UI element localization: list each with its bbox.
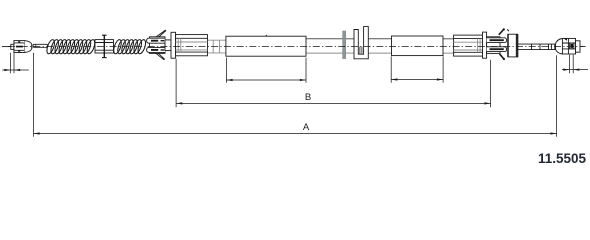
arrows conduit right dim (391, 78, 397, 80)
conduit tube left of sleeve (gray) (208, 40, 226, 53)
inner cable left lead (2, 46, 11, 48)
right socket finger bottom (487, 47, 507, 52)
conduit tube sleeve-to-plate (gray) (306, 38, 343, 40)
right barrel pin (dark) (570, 43, 574, 49)
dim left cap line (2, 69, 29, 71)
arrows B dim (176, 102, 182, 104)
spring sleeve (95, 40, 114, 53)
thick bars in fingers (151, 41, 158, 50)
bulkhead plate (gray) (343, 31, 346, 59)
left stem (165, 40, 171, 51)
left flange disc (171, 32, 176, 58)
conduit sleeve right (392, 36, 444, 56)
right cap (576, 41, 581, 52)
spring left section (45, 39, 96, 55)
arrows conduit left dim (226, 79, 232, 81)
conduit tube right-sleeve to cylinder (443, 38, 454, 40)
left socket finger top (147, 38, 165, 43)
right socket finger top (487, 38, 507, 43)
retainer prong bottom-right (500, 54, 505, 60)
conduit tube plate-to-bracket (346, 38, 354, 40)
right nose dome (555, 39, 562, 55)
retainer prong bottom-left (156, 53, 164, 59)
dim B extension lines (176, 59, 491, 107)
arrows A dim (34, 132, 40, 134)
arrows left cap dim (4, 69, 10, 71)
thick bars right fingers (490, 40, 504, 49)
svg-text:B: B (305, 92, 311, 103)
threaded rod (518, 44, 556, 50)
spring right section (112, 39, 147, 55)
clevis block (508, 34, 518, 57)
part number (538, 151, 586, 166)
dim right pin line (562, 69, 588, 71)
cable pin in fork slot (360, 47, 362, 54)
dim conduit right extension lines (391, 56, 443, 82)
right socket envelope (487, 37, 500, 54)
left nose cone (25, 41, 32, 53)
right barrel (562, 38, 575, 54)
right barrel notch (564, 38, 568, 40)
retainer prong top-left (156, 30, 166, 37)
svg-text:A: A (303, 122, 310, 133)
conduit sleeve left (226, 36, 306, 56)
dim left cap extension lines (11, 53, 15, 73)
arrows right pin dim (563, 69, 569, 71)
sleeve top tick (265, 35, 268, 36)
right flange disc (483, 32, 487, 58)
retainer prong top-right (499, 29, 504, 35)
dimensions (2, 53, 588, 137)
bracket fork (354, 27, 368, 59)
dim conduit left line (226, 79, 306, 81)
dim right pin extension lines (570, 55, 574, 73)
dim A extension lines (34, 53, 557, 137)
dim B line (176, 102, 491, 104)
left socket envelope (150, 37, 166, 54)
left end barrel (14, 41, 25, 53)
centerline axis (8, 46, 583, 48)
dim A line (34, 133, 557, 135)
left end cap (11, 44, 14, 49)
left socket finger bottom (147, 47, 165, 52)
spring clamp strap (103, 35, 105, 57)
dim conduit right line (391, 79, 443, 81)
dim conduit left extension lines (226, 58, 306, 83)
left guide cylinder (176, 35, 208, 56)
conduit tube bracket-to-right-sleeve (368, 38, 391, 40)
right stub cable (580, 45, 586, 47)
inner cable tube after cone (33, 44, 47, 47)
right guide cylinder (454, 35, 483, 56)
left barrel slot (dark) (16, 46, 23, 48)
